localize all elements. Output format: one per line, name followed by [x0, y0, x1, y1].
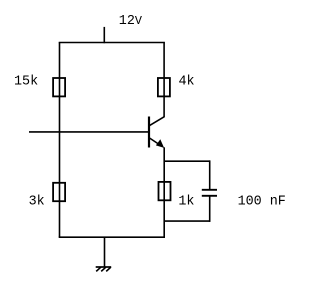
wire base input lead [29, 131, 149, 133]
svg-text:12V: 12V [119, 14, 143, 29]
wire ground stem [104, 237, 106, 267]
svg-text:4k: 4k [179, 75, 195, 90]
resistor R3 3k [53, 183, 65, 201]
ground tick 2 [101, 267, 106, 271]
wire emitter vertical (1k branch) [163, 147, 165, 238]
wire top rail [59, 42, 165, 44]
wire capacitor branch upper [209, 160, 211, 189]
resistor R4 1k [159, 182, 171, 200]
resistor R1 15k [53, 78, 65, 96]
ground bar [96, 266, 112, 268]
transistor Q1 base bar [148, 117, 150, 148]
ground tick 3 [106, 267, 111, 271]
wire capacitor top connector [164, 160, 210, 162]
wire capacitor branch lower [209, 196, 211, 222]
node 12V supply stub [103, 27, 105, 43]
wire bottom rail [59, 236, 165, 238]
capacitor C1 top plate [202, 189, 217, 191]
ground tick 1 [96, 267, 101, 271]
svg-text:100 nF: 100 nF [238, 194, 286, 209]
wire collector vertical (4k branch) [163, 43, 165, 118]
resistor R2 4k [158, 78, 170, 96]
svg-text:1k: 1k [178, 194, 194, 209]
wire left vertical (15k/3k branch) [59, 43, 61, 238]
transistor Q1 collector lead [150, 117, 165, 126]
capacitor C1 bottom plate [202, 195, 217, 197]
transistor Q1 emitter lead [150, 138, 162, 146]
svg-text:15k: 15k [14, 75, 38, 90]
svg-text:3k: 3k [29, 194, 45, 209]
transistor Q1 emitter arrowhead [156, 139, 164, 148]
wire capacitor bottom connector [164, 220, 210, 222]
